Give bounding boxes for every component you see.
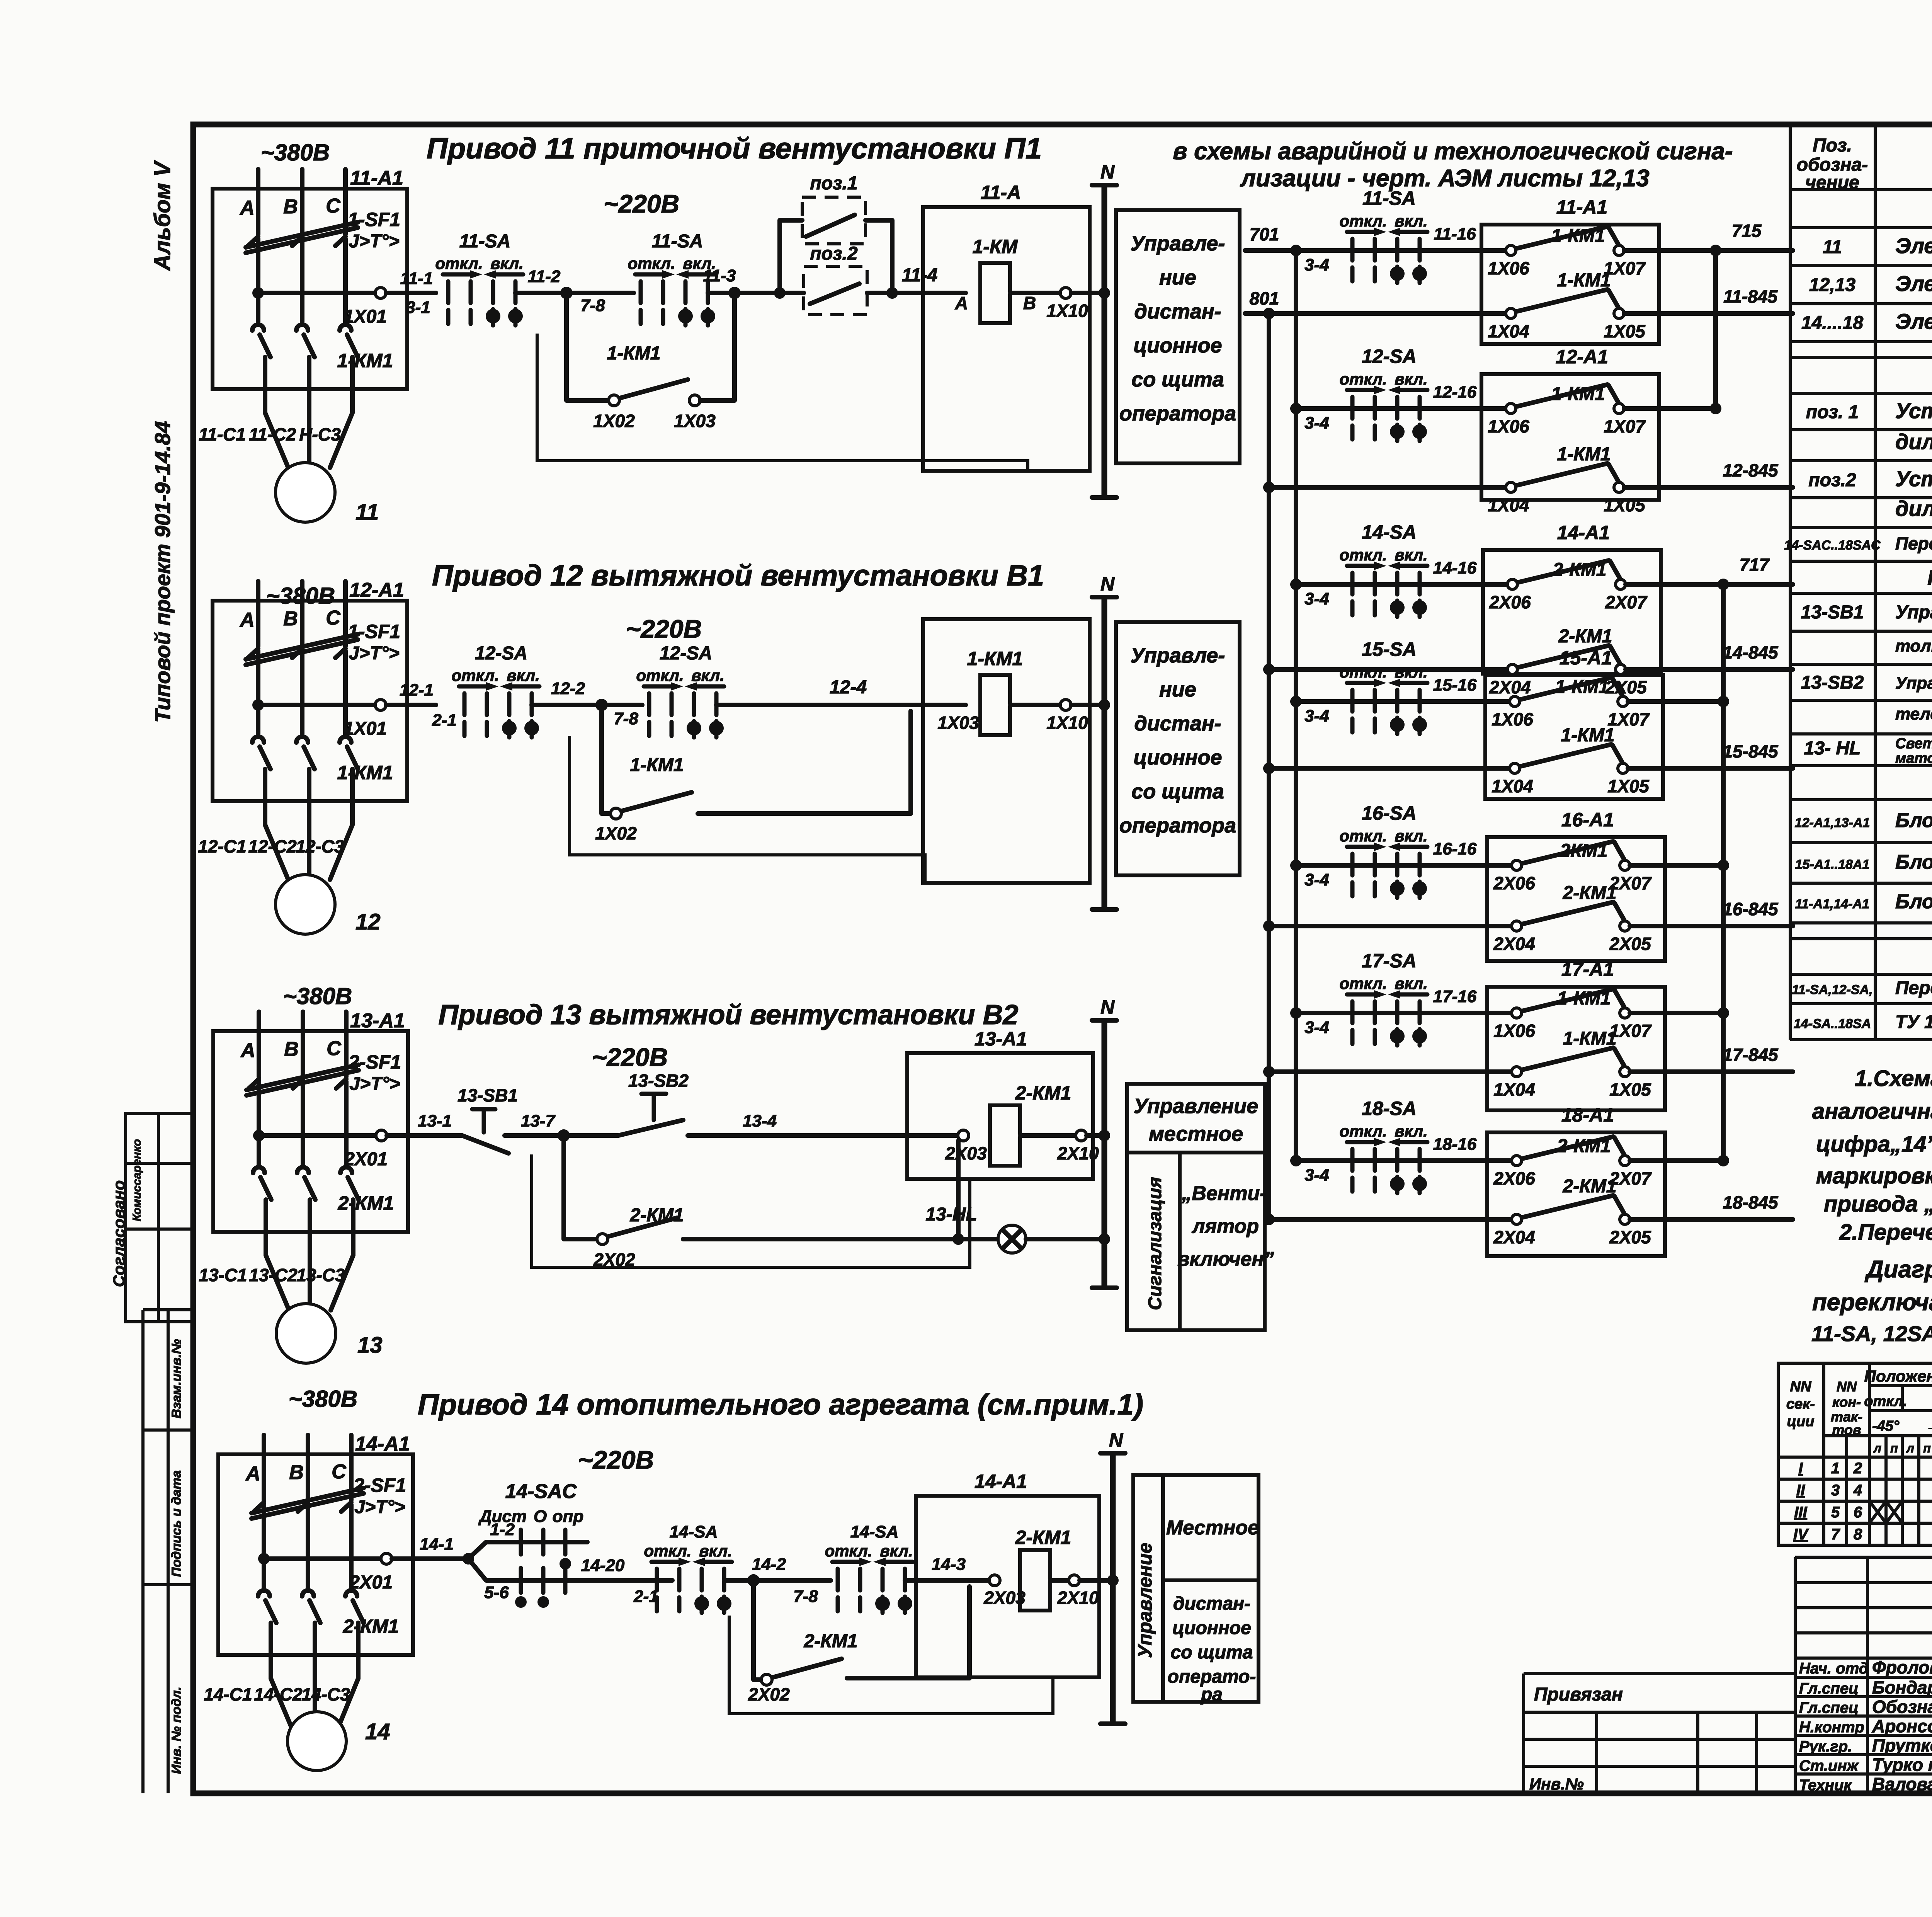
svg-text:2X10: 2X10 xyxy=(1057,1588,1099,1608)
wire row 16 top xyxy=(1296,863,1517,868)
signal box Сигнализация Вентилятор включен xyxy=(1127,1153,1274,1330)
svg-text:15-845: 15-845 xyxy=(1723,741,1779,761)
switch 11-SA section 2 xyxy=(628,254,716,325)
svg-text:12-SA: 12-SA xyxy=(1362,346,1417,367)
svg-text:Переключатель УП5312-А545: Переключатель УП5312-А545 xyxy=(1895,978,1932,998)
svg-text:12-SA: 12-SA xyxy=(475,643,527,664)
node 3-4 junction row 16 xyxy=(1290,860,1302,871)
svg-text:со щита: со щита xyxy=(1171,1642,1253,1663)
svg-text:Диаграммы замыкания контакт: Диаграммы замыкания контактов xyxy=(1864,1256,1932,1283)
contact 1-КМ1 lower xyxy=(1506,289,1624,318)
svg-text:1-КМ1: 1-КМ1 xyxy=(1561,725,1615,746)
svg-text:Инв.№: Инв.№ xyxy=(1529,1775,1584,1793)
svg-text:13-4: 13-4 xyxy=(743,1112,777,1130)
svg-text:11-2: 11-2 xyxy=(528,267,561,286)
svg-text:8: 8 xyxy=(1854,1526,1862,1543)
svg-text:1-КМ1: 1-КМ1 xyxy=(630,755,684,775)
svg-text:Бондарь: Бондарь xyxy=(1872,1677,1932,1697)
svg-text:лятор: лятор xyxy=(1191,1215,1259,1238)
svg-text:Привод 14 отопительного агрега: Привод 14 отопительного агрегата (см.при… xyxy=(418,1388,1143,1421)
svg-text:1-КМ1: 1-КМ1 xyxy=(1555,677,1609,697)
svg-text:2-КМ1: 2-КМ1 xyxy=(804,1631,858,1651)
node 3-4 junction row 17 xyxy=(1290,1007,1302,1019)
svg-text:7-8: 7-8 xyxy=(614,709,638,728)
svg-text:12-С2: 12-С2 xyxy=(248,836,297,856)
svg-text:С: С xyxy=(332,1461,347,1483)
svg-text:16-SA: 16-SA xyxy=(1362,802,1417,824)
svg-text:В: В xyxy=(283,196,298,218)
node 11-2 junction xyxy=(560,287,573,299)
svg-text:18-А1: 18-А1 xyxy=(1561,1104,1614,1126)
svg-text:715: 715 xyxy=(1732,221,1762,241)
svg-text:кон-: кон- xyxy=(1832,1394,1861,1410)
svg-text:со щита: со щита xyxy=(1131,780,1224,803)
control circuit row drive 14 xyxy=(1263,521,1793,697)
svg-text:13-С3: 13-С3 xyxy=(296,1265,345,1285)
svg-text:13-1: 13-1 xyxy=(418,1112,452,1130)
svg-text:лизации - черт. АЭМ листы 12,: лизации - черт. АЭМ листы 12,13 xyxy=(1240,165,1649,192)
svg-text:14-SAC: 14-SAC xyxy=(505,1480,577,1503)
svg-text:13-А1: 13-А1 xyxy=(975,1028,1027,1050)
signature table grid xyxy=(1795,1557,1932,1793)
svg-text:2X03: 2X03 xyxy=(945,1143,987,1163)
terminal 2X03 xyxy=(958,1130,969,1141)
svg-text:12-845: 12-845 xyxy=(1723,460,1779,480)
wire 14-3 xyxy=(905,1578,989,1583)
svg-text:Н-С3: Н-С3 xyxy=(299,424,341,444)
svg-text:7-8: 7-8 xyxy=(580,296,605,315)
svg-text:2-КМ1: 2-КМ1 xyxy=(1563,1176,1617,1197)
svg-text:толкателем красного цвета, с с: толкателем красного цвета, с самовозврат… xyxy=(1895,637,1932,655)
svg-text:2-КМ1: 2-КМ1 xyxy=(1015,1082,1071,1104)
svg-text:1X10: 1X10 xyxy=(1046,713,1088,733)
svg-text:ние: ние xyxy=(1159,266,1196,289)
svg-text:оператора: оператора xyxy=(1119,814,1236,837)
svg-text:18-SA: 18-SA xyxy=(1362,1098,1417,1119)
svg-text:л: л xyxy=(1873,1441,1881,1455)
bus 801 vertical xyxy=(1267,313,1271,1219)
motor feeder unit 12 xyxy=(213,581,407,880)
svg-text:2-КМ1: 2-КМ1 xyxy=(1563,883,1617,903)
svg-text:1-КМ1: 1-КМ1 xyxy=(967,648,1023,669)
svg-text:~380В: ~380В xyxy=(261,140,330,165)
bus 701 vertical xyxy=(1294,250,1298,1161)
wire row 12 bottom from bus 801 xyxy=(1263,482,1275,493)
svg-text:14-SA..18SA: 14-SA..18SA xyxy=(1794,1016,1871,1031)
node 3-4 junction row 15 xyxy=(1290,696,1302,707)
motor M14 xyxy=(287,1712,346,1771)
svg-text:откл.: откл. xyxy=(1864,1393,1907,1410)
svg-text:12-С1: 12-С1 xyxy=(198,836,246,856)
node 801 feed wire xyxy=(1245,311,1269,316)
motor feeder unit 11 xyxy=(213,169,407,468)
svg-text:11: 11 xyxy=(1823,237,1842,257)
svg-text:2X01: 2X01 xyxy=(349,1572,393,1593)
svg-text:ции: ции xyxy=(1787,1413,1815,1430)
svg-text:Гл.спец: Гл.спец xyxy=(1799,1699,1859,1716)
node 701 feed wire xyxy=(1245,248,1296,253)
svg-text:15-SA: 15-SA xyxy=(1362,638,1417,660)
wire output row 15 to bus xyxy=(1628,699,1723,704)
svg-text:14-SA: 14-SA xyxy=(850,1522,899,1541)
svg-text:Пруткова: Пруткова xyxy=(1872,1735,1932,1755)
svg-text:1X05: 1X05 xyxy=(1609,1079,1651,1100)
svg-text:1X07: 1X07 xyxy=(1604,416,1646,436)
svg-text:11-А: 11-А xyxy=(981,182,1021,203)
motor feeder unit 14 xyxy=(218,1435,413,1733)
svg-text:~380В: ~380В xyxy=(289,1386,357,1412)
svg-text:оператора: оператора xyxy=(1119,402,1236,425)
svg-text:п: п xyxy=(1890,1441,1898,1455)
svg-text:13-А1: 13-А1 xyxy=(350,1010,405,1032)
motor M11 xyxy=(276,463,335,522)
svg-text:13-SB1: 13-SB1 xyxy=(457,1085,518,1105)
terminal block outline drive 14 xyxy=(729,1616,1053,1714)
node 3-4 junction row 14 xyxy=(1290,579,1302,590)
svg-text:1-SF1: 1-SF1 xyxy=(348,209,400,230)
diagrams heading xyxy=(1811,1256,1932,1346)
switch 11-SA section 1 xyxy=(435,254,523,325)
svg-text:13-7: 13-7 xyxy=(521,1112,556,1130)
svg-text:14-SA: 14-SA xyxy=(670,1522,718,1541)
svg-text:1X02: 1X02 xyxy=(593,411,635,431)
svg-text:7-8: 7-8 xyxy=(793,1587,818,1606)
svg-text:Дист: Дист xyxy=(478,1507,527,1526)
margin approval table xyxy=(126,1113,193,1322)
svg-text:1-КМ1: 1-КМ1 xyxy=(1551,384,1605,404)
svg-text:III: III xyxy=(1794,1504,1807,1521)
switch 12-SA section 2 xyxy=(636,666,724,737)
wire row 12 top xyxy=(1296,406,1511,411)
svg-text:А: А xyxy=(245,1462,260,1485)
svg-text:ние: ние xyxy=(1159,678,1196,701)
svg-text:7: 7 xyxy=(1831,1526,1840,1543)
contact diagram table A (selector switch SA) xyxy=(1778,1363,1932,1545)
svg-text:1-КМ1: 1-КМ1 xyxy=(1557,444,1611,465)
svg-text:3-4: 3-4 xyxy=(1304,707,1329,725)
svg-text:13-С1: 13-С1 xyxy=(199,1265,247,1285)
coil 1-КМ of 11-А xyxy=(955,236,1060,323)
svg-text:2-КМ1: 2-КМ1 xyxy=(338,1192,394,1214)
svg-text:В: В xyxy=(283,608,298,630)
svg-text:NN: NN xyxy=(1837,1379,1857,1394)
svg-text:3-4: 3-4 xyxy=(1304,1018,1329,1037)
svg-text:14-А1: 14-А1 xyxy=(355,1433,410,1455)
svg-text:Управле-: Управле- xyxy=(1131,232,1225,255)
svg-text:12: 12 xyxy=(355,909,381,935)
svg-text:опр: опр xyxy=(553,1507,584,1526)
svg-text:3: 3 xyxy=(1831,1482,1840,1499)
switch 12-SA section 1 xyxy=(451,666,539,737)
wire output row 12 to bus xyxy=(1624,406,1716,411)
svg-text:13: 13 xyxy=(357,1333,383,1358)
contact 2КМ1 upper xyxy=(1512,841,1630,870)
svg-text:11-А1: 11-А1 xyxy=(350,167,403,189)
svg-text:Обозная: Обозная xyxy=(1872,1697,1932,1717)
svg-text:Взам.инв.№: Взам.инв.№ xyxy=(169,1339,184,1418)
svg-text:14-2: 14-2 xyxy=(752,1555,786,1574)
svg-text:А: А xyxy=(240,1039,255,1062)
wire row 14 top xyxy=(1296,582,1512,587)
svg-text:12-С3: 12-С3 xyxy=(296,836,344,856)
node 14-2 junction xyxy=(747,1574,760,1587)
svg-text:2-КМ1: 2-КМ1 xyxy=(630,1205,684,1226)
wire lamp to N bus xyxy=(1026,1237,1104,1241)
wire 14-1 xyxy=(413,1556,468,1561)
svg-text:15-А1..18А1: 15-А1..18А1 xyxy=(1795,857,1870,872)
svg-text:2X04: 2X04 xyxy=(1489,677,1531,697)
svg-text:15-А1: 15-А1 xyxy=(1560,647,1612,669)
svg-text:5-6: 5-6 xyxy=(484,1583,509,1602)
svg-text:12-4: 12-4 xyxy=(830,677,867,698)
N bus of drive 13 xyxy=(1092,996,1117,1288)
svg-text:3-4: 3-4 xyxy=(1304,870,1329,889)
svg-text:дилатометрическое ТУДЭ-4: дилатометрическое ТУДЭ-4 xyxy=(1895,496,1932,521)
svg-text:Пульт управления 13-ПУ: Пульт управления 13-ПУ xyxy=(1927,566,1932,589)
svg-text:Турко т.: Турко т. xyxy=(1872,1755,1932,1775)
terminal 2X10 xyxy=(1076,1130,1087,1141)
svg-text:Подпись и дата: Подпись и дата xyxy=(169,1470,184,1577)
svg-text:1X06: 1X06 xyxy=(1493,1021,1535,1041)
svg-text:переключателей: переключателей xyxy=(1812,1289,1932,1316)
contact 1-КМ1 lower xyxy=(1506,463,1624,492)
wire output 11-845 xyxy=(1624,311,1793,316)
wire 12-4 xyxy=(716,703,966,707)
svg-text:12-16: 12-16 xyxy=(1433,383,1477,402)
svg-text:6: 6 xyxy=(1854,1504,1862,1521)
switch 14-SA section 2 xyxy=(825,1542,913,1613)
svg-text:2-КМ1: 2-КМ1 xyxy=(1557,1136,1611,1156)
svg-text:2-1: 2-1 xyxy=(633,1587,658,1606)
svg-text:А: А xyxy=(955,293,968,313)
wire row 14 bottom from bus 801 xyxy=(1263,664,1275,675)
contact 2-КМ1 lower xyxy=(1507,645,1626,674)
svg-text:16-845: 16-845 xyxy=(1723,899,1779,919)
wire output 717 xyxy=(1626,582,1793,587)
svg-text:С: С xyxy=(326,607,341,629)
svg-text:привода „ 15.... 18”.: привода „ 15.... 18”. xyxy=(1824,1192,1932,1217)
wire 12-2 xyxy=(532,703,642,707)
N bus of drive 11 xyxy=(1092,161,1117,497)
svg-text:Гл.спец: Гл.спец xyxy=(1799,1680,1859,1697)
thermostat поз.2 branch xyxy=(780,243,898,315)
svg-text:801: 801 xyxy=(1250,288,1279,308)
svg-text:11-3: 11-3 xyxy=(703,266,736,285)
terminal 1X10 xyxy=(1060,700,1071,710)
wire output row 17 to bus xyxy=(1630,1011,1723,1015)
lamp 13-HL xyxy=(998,1225,1026,1253)
svg-text:14-20: 14-20 xyxy=(581,1556,625,1575)
svg-text:2X04: 2X04 xyxy=(1493,934,1535,954)
svg-text:14-С1: 14-С1 xyxy=(204,1684,252,1704)
node 3-4 junction row 18 xyxy=(1290,1155,1302,1166)
control circuit row drive 12 xyxy=(1263,346,1793,515)
svg-text:1X05: 1X05 xyxy=(1607,776,1650,796)
svg-text:ра: ра xyxy=(1200,1684,1223,1705)
svg-text:Типовой проект 901-9-14.84: Типовой проект 901-9-14.84 xyxy=(150,421,175,723)
svg-text:1X05: 1X05 xyxy=(1604,495,1646,515)
svg-text:2X01: 2X01 xyxy=(344,1149,388,1170)
svg-text:13-SB1: 13-SB1 xyxy=(1801,602,1864,623)
wire 11-2 xyxy=(515,291,634,295)
svg-text:N: N xyxy=(1109,1429,1123,1451)
svg-text:17-16: 17-16 xyxy=(1433,987,1477,1006)
wire row 15 top xyxy=(1296,699,1515,704)
svg-text:маркировки цепей меняется в: маркировки цепей меняется в соответствии… xyxy=(1816,1163,1932,1188)
svg-text:2-1: 2-1 xyxy=(432,711,457,730)
wire output 12-845 xyxy=(1624,485,1793,490)
contact 1-КМ1 upper xyxy=(1510,678,1628,707)
svg-text:Управление: Управление xyxy=(1134,1095,1258,1118)
wire output row 16 to bus xyxy=(1630,863,1723,868)
svg-text:2-КМ1: 2-КМ1 xyxy=(1015,1527,1071,1548)
svg-text:11-SA: 11-SA xyxy=(1362,187,1416,209)
contact 1-КМ1 upper xyxy=(1506,226,1624,255)
svg-text:J>Т°>: J>Т°> xyxy=(349,1074,400,1094)
terminal block outline drive 12 xyxy=(570,736,925,883)
wire output row 18 to bus xyxy=(1630,1158,1723,1163)
svg-text:дистан-: дистан- xyxy=(1173,1594,1250,1614)
wire 11-1 xyxy=(407,291,436,295)
svg-text:А: А xyxy=(239,609,255,631)
svg-text:17-А1: 17-А1 xyxy=(1561,958,1614,980)
svg-text:12,13: 12,13 xyxy=(1809,275,1855,295)
svg-text:I: I xyxy=(1798,1460,1803,1477)
svg-text:2X05: 2X05 xyxy=(1609,934,1651,954)
svg-text:Валова: Валова xyxy=(1872,1774,1932,1794)
svg-text:II: II xyxy=(1796,1482,1805,1499)
holding contact loop 2-КМ1 of drive 14 xyxy=(748,1580,969,1704)
contact 1-КМ1 upper xyxy=(1506,385,1624,414)
contact 1-КМ1 upper xyxy=(1512,989,1630,1018)
svg-text:11-SA, 12SA, 14-SA...18-SA: 11-SA, 12SA, 14-SA...18-SA 14-SAC... 18-… xyxy=(1811,1321,1932,1346)
control circuit row drive 17 xyxy=(1263,950,1793,1110)
relay block 18-А1 box xyxy=(1487,1132,1665,1256)
svg-text:15-16: 15-16 xyxy=(1433,676,1477,695)
svg-text:Электродвигатель 4АА63В4У3: Электродвигатель 4АА63В4У3 xyxy=(1895,309,1932,334)
control box Управление местное дистанционное (drive 14) xyxy=(1133,1475,1259,1705)
svg-text:2X06: 2X06 xyxy=(1493,873,1535,893)
node 3-4 junction row 12 xyxy=(1290,403,1302,414)
wire output 715 xyxy=(1624,248,1793,253)
switch 12-SA xyxy=(1339,370,1427,441)
svg-text:1-КМ1: 1-КМ1 xyxy=(1557,270,1611,291)
control circuit row drive 15 xyxy=(1263,638,1793,799)
svg-text:включен”: включен” xyxy=(1177,1248,1274,1270)
svg-text:2X02: 2X02 xyxy=(748,1684,790,1704)
relay block 17-А1 box xyxy=(1487,987,1665,1110)
contact 2-КМ1 upper xyxy=(1512,1137,1630,1166)
switch 14-SAC xyxy=(478,1480,583,1608)
svg-text:1-SF1: 1-SF1 xyxy=(348,621,400,642)
svg-text:NN: NN xyxy=(1790,1379,1812,1395)
contact 2-КМ1 lower xyxy=(1512,1195,1630,1224)
svg-text:2КМ1: 2КМ1 xyxy=(1560,841,1608,861)
svg-text:12-А1,13-А1: 12-А1,13-А1 xyxy=(1795,815,1870,830)
switch 11-SA xyxy=(1339,212,1427,283)
svg-text:2: 2 xyxy=(1853,1460,1862,1477)
svg-text:Привод 13 вытяжной вентустанов: Привод 13 вытяжной вентустановки В2 xyxy=(439,999,1019,1030)
svg-text:В: В xyxy=(1023,293,1036,313)
svg-text:Привод 11 приточной вентустано: Привод 11 приточной вентустановки П1 xyxy=(427,132,1042,165)
svg-text:1-КМ1: 1-КМ1 xyxy=(337,350,393,371)
svg-text:ционное: ционное xyxy=(1172,1618,1251,1638)
svg-text:со щита: со щита xyxy=(1131,368,1224,391)
svg-text:2.Перечень аппаратов приведе: 2.Перечень аппаратов приведен для привод… xyxy=(1839,1220,1932,1245)
svg-text:Привязан: Привязан xyxy=(1534,1684,1623,1705)
svg-text:12-SA: 12-SA xyxy=(660,643,712,664)
svg-text:14-А1: 14-А1 xyxy=(1557,522,1610,543)
svg-text:сек-: сек- xyxy=(1786,1396,1815,1412)
wire row 15 bottom from bus 801 xyxy=(1263,763,1275,774)
relay block 14-А1 box xyxy=(1483,550,1661,674)
svg-text:1X06: 1X06 xyxy=(1488,258,1529,278)
svg-text:2-КМ1: 2-КМ1 xyxy=(343,1616,399,1637)
svg-text:3-4: 3-4 xyxy=(1304,255,1329,274)
svg-text:11-А1: 11-А1 xyxy=(1556,196,1607,218)
svg-text:J>Т°>: J>Т°> xyxy=(349,231,399,252)
svg-text:Управление: Управление xyxy=(1134,1542,1156,1658)
svg-text:Управле-: Управле- xyxy=(1131,644,1225,667)
svg-text:16-А1: 16-А1 xyxy=(1561,809,1614,831)
relay block 12-А1 box xyxy=(1481,374,1659,500)
svg-text:2X06: 2X06 xyxy=(1489,592,1531,612)
svg-text:ционное: ционное xyxy=(1133,746,1222,769)
svg-text:1-КМ1: 1-КМ1 xyxy=(1563,1028,1617,1049)
svg-text:14-SA: 14-SA xyxy=(1362,521,1417,543)
wire row 17 bottom from bus 801 xyxy=(1263,1066,1275,1078)
contact 2-КМ1 upper xyxy=(1507,560,1626,589)
svg-text:матором с красным светофильтро: матором с красным светофильтром, ~220в xyxy=(1895,750,1932,766)
svg-text:-45°: -45° xyxy=(1872,1418,1900,1434)
svg-text:Ст.инж: Ст.инж xyxy=(1799,1757,1859,1774)
svg-text:Электродвигатель 4АА63А2У3: Электродвигатель 4АА63А2У3 xyxy=(1895,233,1932,258)
svg-text:„Венти-: „Венти- xyxy=(1181,1182,1266,1205)
svg-text:1X10: 1X10 xyxy=(1046,301,1088,321)
svg-text:О: О xyxy=(534,1507,547,1526)
holding contact loop 1-КМ1 of drive 11 xyxy=(566,293,735,431)
svg-text:3-4: 3-4 xyxy=(1304,589,1329,608)
wire row 18 top xyxy=(1296,1158,1517,1163)
svg-text:аналогична приведенной схеме: аналогична приведенной схеме управления … xyxy=(1812,1099,1932,1124)
terminal block outline drive 13 xyxy=(532,1154,970,1267)
wire row 16 bottom from bus 801 xyxy=(1263,920,1275,932)
motor M13 xyxy=(276,1304,336,1363)
thermostat поз.1 branch xyxy=(774,173,892,299)
svg-text:Блок БО35112 - 2174 – 21: Блок БО35112 - 2174 – 21 xyxy=(1895,851,1932,873)
svg-text:N: N xyxy=(1100,161,1115,183)
wire to N bus xyxy=(1080,1578,1113,1583)
svg-text:Устройство терморегулирующее: Устройство терморегулирующее xyxy=(1895,466,1932,491)
svg-text:2X07: 2X07 xyxy=(1605,592,1648,612)
svg-text:13-SB2: 13-SB2 xyxy=(1801,672,1864,693)
svg-text:Управляющий элемент КУ с цилин: Управляющий элемент КУ с цилиндрическим xyxy=(1895,602,1932,623)
svg-text:11-SA: 11-SA xyxy=(459,231,511,252)
svg-text:В: В xyxy=(289,1461,304,1484)
contact 1-КМ1 lower xyxy=(1510,744,1628,773)
svg-text:1X01: 1X01 xyxy=(344,718,387,739)
wire 11-3 xyxy=(708,291,780,295)
svg-text:1X06: 1X06 xyxy=(1492,709,1533,729)
wire 12-1 xyxy=(407,703,436,707)
svg-text:11-4: 11-4 xyxy=(902,265,938,286)
control box Управление местное (drive 13) xyxy=(1127,1084,1265,1153)
svg-text:11-SA,12-SA,: 11-SA,12-SA, xyxy=(1792,982,1872,997)
svg-text:2X04: 2X04 xyxy=(1493,1227,1535,1247)
svg-text:14-1: 14-1 xyxy=(420,1535,454,1554)
svg-text:~220В: ~220В xyxy=(604,189,679,218)
wire output 17-845 xyxy=(1630,1069,1793,1074)
